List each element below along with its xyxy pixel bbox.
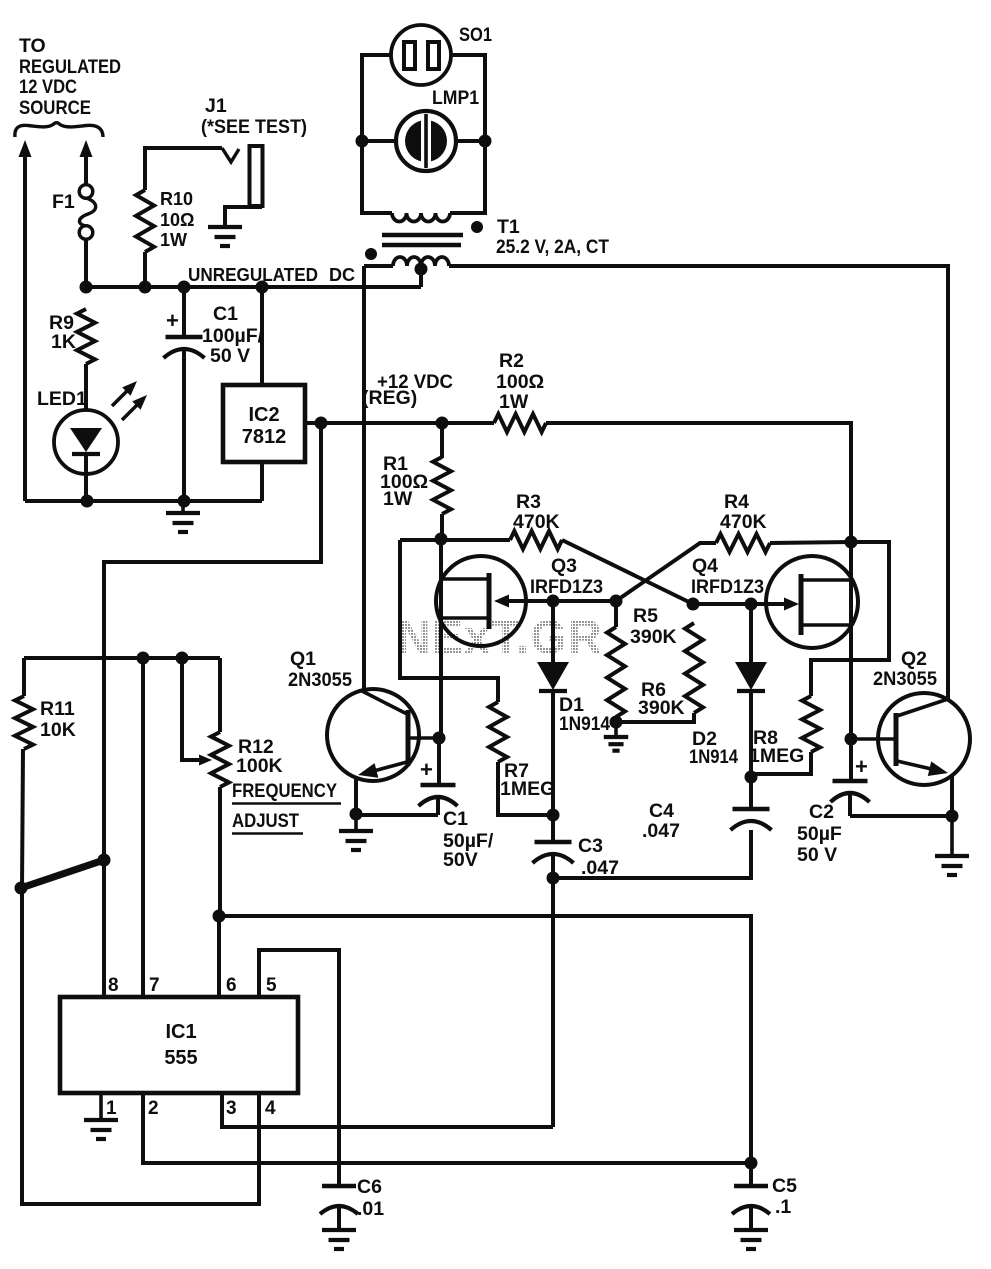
capacitor C6 .01 bbox=[322, 1184, 356, 1189]
svg-text:1: 1 bbox=[106, 1098, 117, 1119]
ground Q1 bbox=[354, 814, 358, 831]
node R5 top bbox=[610, 595, 623, 608]
wire right source lead with up arrow bbox=[80, 140, 93, 157]
svg-text:470K: 470K bbox=[720, 511, 767, 533]
svg-text:UNREGULATED: UNREGULATED bbox=[188, 265, 318, 285]
svg-text:1W: 1W bbox=[383, 488, 413, 510]
wire R11 bottom bbox=[22, 749, 23, 888]
svg-text:470K: 470K bbox=[513, 511, 560, 533]
transformer T1 primary winding bbox=[364, 264, 393, 268]
svg-text:.047: .047 bbox=[642, 820, 680, 842]
wire D2 to C4 bbox=[749, 691, 753, 809]
svg-text:C6: C6 bbox=[357, 1176, 382, 1198]
svg-text:SOURCE: SOURCE bbox=[19, 97, 91, 119]
wire IC2 input from bus bbox=[260, 287, 264, 385]
svg-text:10Ω: 10Ω bbox=[160, 210, 194, 230]
svg-text:50V: 50V bbox=[443, 849, 478, 871]
wire Q4 source box bbox=[811, 542, 889, 696]
capacitor C2 50uF bbox=[849, 739, 853, 781]
node R5 ground bbox=[610, 716, 623, 729]
node Q1 emitter ground bbox=[350, 808, 363, 821]
wire unregulated dc bus bbox=[86, 285, 421, 289]
node D1 top bbox=[547, 595, 560, 608]
svg-text:1MEG: 1MEG bbox=[749, 745, 804, 767]
svg-text:REGULATED: REGULATED bbox=[19, 56, 121, 78]
wire R4 right bbox=[770, 542, 851, 543]
node pin7 rail bbox=[137, 652, 150, 665]
node D2 top bbox=[745, 598, 758, 611]
capacitor C1 100uF bbox=[182, 287, 186, 337]
transformer T1 phasing dot secondary bbox=[471, 221, 483, 233]
wire SO1 right bbox=[450, 55, 485, 213]
wire R12 wiper bbox=[182, 658, 200, 760]
svg-text:1N914: 1N914 bbox=[559, 713, 610, 735]
wire 555 pin3 bbox=[222, 1093, 553, 1127]
svg-text:FREQUENCY: FREQUENCY bbox=[232, 780, 337, 802]
node switch bottom bbox=[15, 882, 28, 895]
socket SO1 bbox=[391, 25, 451, 85]
transistor Q1 2N3055 bbox=[327, 689, 419, 781]
svg-text:Q3: Q3 bbox=[551, 555, 577, 577]
transformer T1 core bbox=[382, 233, 463, 237]
node D2 C4 R8 junction bbox=[745, 771, 758, 784]
svg-text:1W: 1W bbox=[160, 230, 187, 250]
node IC2 bus bbox=[256, 281, 269, 294]
node Q2 base bbox=[845, 733, 858, 746]
resistor R6 bbox=[685, 623, 703, 713]
svg-text:1W: 1W bbox=[499, 391, 529, 413]
svg-text:+: + bbox=[855, 754, 868, 779]
node R10 bus bbox=[139, 281, 152, 294]
svg-text:J1: J1 bbox=[205, 95, 227, 117]
svg-text:C2: C2 bbox=[809, 801, 834, 823]
wire 555 pin7 bbox=[141, 658, 145, 997]
svg-text:100K: 100K bbox=[236, 755, 283, 777]
wire LED1 to ground bus bbox=[84, 474, 88, 501]
wire R11 to pin4 bbox=[22, 888, 259, 1204]
wire 555 pin2 bbox=[143, 1093, 751, 1163]
wire +12V rail right bbox=[546, 423, 851, 739]
brace under source label bbox=[15, 123, 103, 137]
svg-text:50µF: 50µF bbox=[797, 823, 842, 845]
wire R11 top rail bbox=[24, 656, 220, 660]
resistor R10 bbox=[136, 190, 154, 252]
node LED ground bbox=[81, 495, 94, 508]
svg-text:.1: .1 bbox=[775, 1196, 791, 1218]
wire cross coupling Q3 gate to R4 bbox=[616, 543, 716, 601]
svg-text:(REG): (REG) bbox=[362, 387, 417, 409]
svg-text:C4: C4 bbox=[649, 800, 674, 822]
svg-text:(*SEE TEST): (*SEE TEST) bbox=[201, 116, 307, 138]
wire 555 pin5 to C6 bbox=[259, 950, 339, 1186]
svg-text:1MEG: 1MEG bbox=[500, 778, 555, 800]
ground Q2 bbox=[950, 816, 954, 856]
diode D1 1N914 bbox=[551, 601, 555, 662]
capacitor C4 .047 bbox=[733, 807, 770, 812]
svg-text:ADJUST: ADJUST bbox=[232, 810, 299, 832]
node T1 center tap bbox=[415, 263, 428, 276]
capacitor C3 .047 bbox=[535, 840, 572, 845]
svg-text:50 V: 50 V bbox=[797, 844, 837, 866]
wire ground bus bbox=[25, 499, 262, 503]
svg-text:C1: C1 bbox=[443, 808, 468, 830]
ground R5 bbox=[614, 722, 618, 737]
wire left source lead with up arrow bbox=[19, 140, 32, 157]
wire +12V rail bbox=[321, 421, 494, 425]
transistor Q4 IRFD1Z3 bbox=[766, 556, 858, 648]
node IC2 output junction bbox=[315, 417, 328, 430]
node R1 bottom bbox=[435, 533, 448, 546]
svg-text:LMP1: LMP1 bbox=[432, 87, 479, 109]
wire R6 bottom to ground node bbox=[616, 713, 694, 722]
resistor R1 bbox=[433, 457, 451, 514]
resistor R8 bbox=[802, 696, 820, 752]
wire R1 top lead bbox=[440, 423, 444, 458]
wire 555 pin6 bbox=[217, 916, 221, 997]
svg-text:NExT.GR: NExT.GR bbox=[397, 610, 603, 663]
node C5 top bbox=[745, 1157, 758, 1170]
svg-text:IC1: IC1 bbox=[165, 1021, 196, 1043]
svg-text:T1: T1 bbox=[497, 216, 520, 238]
svg-text:10K: 10K bbox=[40, 719, 76, 741]
LED LED1 bbox=[54, 410, 118, 474]
wire C3 to C4 bottom bbox=[553, 830, 751, 878]
wire 555 pin1 ground bbox=[99, 1093, 103, 1120]
resistor R2 bbox=[494, 414, 546, 432]
resistor R11 bbox=[22, 658, 26, 696]
wire R12 top bbox=[218, 658, 222, 732]
wire cross coupling R3 to Q4 gate bbox=[562, 540, 693, 604]
node switch top bbox=[98, 854, 111, 867]
node R7 D1 junction bbox=[547, 809, 560, 822]
wire Q3 source box bbox=[400, 540, 498, 702]
svg-text:2: 2 bbox=[148, 1098, 159, 1119]
resistor R3 bbox=[510, 531, 562, 549]
svg-text:Q2: Q2 bbox=[901, 648, 927, 670]
svg-text:C3: C3 bbox=[578, 835, 603, 857]
svg-text:7: 7 bbox=[149, 975, 160, 996]
svg-text:Q4: Q4 bbox=[692, 555, 718, 577]
svg-text:390K: 390K bbox=[630, 626, 677, 648]
lamp LMP1 bbox=[396, 111, 456, 171]
wire R5 top lead bbox=[614, 601, 618, 627]
svg-text:F1: F1 bbox=[52, 191, 75, 213]
wire Q3 vertical drain-source line bbox=[439, 539, 443, 738]
regulator IC2 7812 bbox=[223, 385, 305, 462]
transformer T1 secondary winding bbox=[392, 213, 450, 222]
svg-text:R4: R4 bbox=[724, 491, 749, 513]
wire LMP1 right bbox=[456, 139, 485, 143]
svg-text:R11: R11 bbox=[40, 698, 75, 720]
svg-text:+: + bbox=[420, 757, 433, 782]
wire R10 top to jack tip bbox=[145, 148, 222, 190]
LED1 arrows bbox=[112, 390, 128, 406]
wire R10 bottom bbox=[143, 252, 147, 287]
svg-text:12 VDC: 12 VDC bbox=[19, 76, 77, 98]
wire Q3 drain node bbox=[400, 538, 510, 542]
wire center tap down bbox=[419, 269, 423, 287]
node F1 bus bbox=[80, 281, 93, 294]
capacitor C5 .1 bbox=[749, 1163, 753, 1186]
svg-text:8: 8 bbox=[108, 975, 119, 996]
node C1 ground bbox=[178, 495, 191, 508]
node R4 right bbox=[845, 536, 858, 549]
svg-text:C1: C1 bbox=[213, 303, 238, 325]
wire IC2 output bbox=[305, 421, 321, 425]
node Q1 base bbox=[433, 732, 446, 745]
node LMP1 left bbox=[356, 135, 369, 148]
wire SO1 left bbox=[362, 55, 392, 213]
svg-text:.047: .047 bbox=[581, 857, 619, 879]
resistor R5 bbox=[607, 627, 625, 717]
wire R1 bottom lead bbox=[440, 514, 444, 539]
ground jack J1 bbox=[208, 225, 242, 229]
svg-text:5: 5 bbox=[266, 975, 277, 996]
node C1 bus bbox=[178, 281, 191, 294]
svg-text:IRFD1Z3: IRFD1Z3 bbox=[530, 576, 603, 598]
jack J1 tip contact bbox=[222, 148, 239, 162]
svg-text:C5: C5 bbox=[772, 1175, 797, 1197]
svg-text:Q1: Q1 bbox=[290, 648, 316, 670]
ic IC1 555 bbox=[60, 997, 298, 1093]
svg-text:R2: R2 bbox=[499, 350, 524, 372]
svg-text:4: 4 bbox=[265, 1098, 276, 1119]
svg-text:SO1: SO1 bbox=[459, 24, 492, 46]
svg-text:IRFD1Z3: IRFD1Z3 bbox=[691, 576, 764, 598]
svg-text:6: 6 bbox=[226, 975, 237, 996]
wire R12 node to C5 bbox=[219, 916, 751, 1163]
node wiper rail bbox=[176, 652, 189, 665]
svg-text:.01: .01 bbox=[357, 1198, 384, 1220]
node Q2 emitter bbox=[946, 810, 959, 823]
wire jack sleeve to ground bbox=[225, 207, 262, 227]
svg-text:DC: DC bbox=[329, 265, 355, 285]
wire R12 bottom bbox=[218, 787, 222, 916]
svg-text:R5: R5 bbox=[633, 605, 658, 627]
svg-text:R3: R3 bbox=[516, 491, 541, 513]
resistor R7 bbox=[489, 702, 507, 762]
svg-text:3: 3 bbox=[226, 1098, 237, 1119]
wire R9 to LED1 bbox=[84, 364, 88, 411]
wire F1 to unregulated bus bbox=[84, 239, 88, 287]
wire Q1 emitter bbox=[354, 777, 358, 814]
wire Q2 emitter bbox=[950, 776, 954, 816]
wire D1 to C3 bbox=[551, 691, 555, 842]
wire 555 pin4 bbox=[257, 1093, 261, 1204]
svg-text:100Ω: 100Ω bbox=[496, 371, 544, 393]
diode D2 1N914 bbox=[749, 604, 753, 662]
resistor R12 bbox=[211, 732, 229, 787]
svg-text:2N3055: 2N3055 bbox=[873, 668, 937, 690]
wire LMP1 left bbox=[362, 139, 396, 143]
svg-text:555: 555 bbox=[164, 1047, 197, 1069]
svg-text:+: + bbox=[166, 308, 179, 333]
svg-text:50 V: 50 V bbox=[210, 345, 250, 367]
fuse F1 bbox=[79, 185, 93, 199]
wire R8 bottom bbox=[751, 752, 811, 774]
jack J1 sleeve bar bbox=[250, 146, 263, 206]
svg-text:7812: 7812 bbox=[242, 426, 287, 448]
wire R7 bottom bbox=[498, 762, 553, 815]
transformer T1 phasing dot primary bbox=[365, 248, 377, 260]
resistor R9 bbox=[77, 309, 95, 364]
node R1 top bbox=[436, 417, 449, 430]
svg-text:LED1: LED1 bbox=[37, 388, 87, 410]
resistor R4 bbox=[716, 534, 770, 552]
svg-text:R10: R10 bbox=[160, 189, 193, 209]
node R12 bottom bbox=[213, 910, 226, 923]
wire Q1 collector bbox=[362, 266, 366, 691]
wire IC2 to ground bus bbox=[260, 462, 264, 501]
svg-text:1K: 1K bbox=[51, 331, 76, 353]
wire T1 to Q2 collector bbox=[449, 266, 948, 700]
svg-text:390K: 390K bbox=[638, 697, 685, 719]
switch arm bbox=[21, 860, 104, 888]
node LMP1 right bbox=[479, 135, 492, 148]
node R6 top bbox=[687, 598, 700, 611]
svg-text:TO: TO bbox=[19, 35, 46, 57]
wire +12V to 555 supply bbox=[104, 423, 321, 997]
svg-text:25.2 V, 2A, CT: 25.2 V, 2A, CT bbox=[496, 236, 609, 258]
svg-text:2N3055: 2N3055 bbox=[288, 669, 352, 691]
transistor Q2 2N3055 bbox=[878, 693, 970, 785]
node C3 bottom bbox=[547, 872, 560, 885]
ground main bbox=[181, 501, 185, 513]
capacitor C1 50uF bbox=[437, 738, 441, 785]
svg-text:IC2: IC2 bbox=[248, 404, 279, 426]
transistor Q3 IRFD1Z3 bbox=[436, 556, 526, 646]
svg-text:100µF/: 100µF/ bbox=[202, 325, 264, 347]
svg-text:1N914: 1N914 bbox=[689, 746, 738, 768]
